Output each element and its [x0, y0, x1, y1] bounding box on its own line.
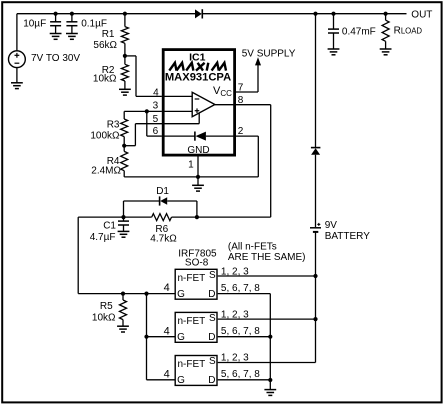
label 4.7uF [90, 232, 116, 243]
svg-text:n-FET: n-FET [178, 316, 206, 327]
svg-text:4.7kΩ: 4.7kΩ [150, 234, 177, 245]
label 5V SUPPLY [242, 48, 296, 59]
label 56k [93, 40, 117, 51]
node gate rail mid [144, 335, 148, 339]
label R1 [102, 29, 115, 40]
svg-text:6: 6 [153, 126, 159, 137]
logo MAXIM [169, 63, 226, 71]
svg-text:R1: R1 [102, 29, 115, 40]
comparator triangle (inside IC1) [192, 92, 215, 116]
label VCC [213, 85, 232, 98]
pin 4 label (Q3) [164, 368, 170, 380]
label pins 1,2,3 (Q1) [221, 266, 249, 277]
svg-text:4.7µF: 4.7µF [90, 232, 116, 243]
wire: gate 2 branch [147, 336, 175, 338]
diode (internal, IC1) [162, 132, 236, 141]
capacitor 10uF [50, 14, 61, 34]
svg-text:(All n-FETs: (All n-FETs [228, 241, 277, 252]
battery B1 9V [310, 223, 321, 363]
svg-text:10kΩ: 10kΩ [93, 74, 117, 85]
label GND (IC) [187, 145, 209, 156]
svg-text:S: S [209, 313, 216, 324]
svg-text:56kΩ: 56kΩ [93, 40, 117, 51]
label pins 5,6,7,8 (Q2) [221, 326, 260, 337]
node gate rail top [144, 292, 148, 296]
node: input junction dots [54, 12, 388, 16]
pin 7 label [238, 83, 244, 94]
wire: Q3 drain [218, 379, 271, 381]
capacitor C2 0.47mF [328, 14, 339, 49]
resistor R6 4.7k [152, 214, 172, 221]
label 0.47mF [342, 26, 376, 37]
wire: pin 1 stub [197, 157, 199, 177]
wire: top supply rail [17, 13, 407, 15]
node R3/R4 [122, 144, 126, 148]
wire: Q3 source [218, 362, 316, 364]
ground (0.47mF) [328, 49, 340, 55]
label 2.4M [91, 165, 121, 176]
svg-text:5, 6, 7, 8: 5, 6, 7, 8 [221, 283, 260, 294]
svg-text:100kΩ: 100kΩ [90, 131, 120, 142]
wire: pin 2 loop [236, 136, 258, 177]
svg-text:n-FET: n-FET [178, 359, 206, 370]
label 4.7k [150, 234, 177, 245]
resistor R4 2.4M [121, 146, 128, 177]
node Q2 source/rail [313, 317, 317, 321]
svg-text:D1: D1 [156, 186, 169, 197]
node pin3/pin6 link [145, 109, 149, 113]
svg-text:9V: 9V [325, 220, 338, 231]
transistor Q3 n-FET (IRF7805) [175, 356, 217, 387]
ground (10uF) [50, 34, 62, 40]
svg-text:5, 6, 7, 8: 5, 6, 7, 8 [221, 326, 260, 337]
label R2 [102, 65, 115, 76]
pin 2 label [238, 126, 244, 137]
ground (R5) [117, 326, 129, 332]
resistor R1 56k [121, 14, 128, 56]
label MAX931CPA [165, 72, 231, 84]
node R5 top [121, 292, 125, 296]
label IC1 [189, 52, 206, 64]
svg-text:R3: R3 [107, 119, 120, 130]
ground (C1) [118, 231, 130, 237]
node R1/R2 [123, 54, 127, 58]
svg-text:4: 4 [164, 282, 170, 294]
svg-text:0.47mF: 0.47mF [342, 26, 376, 37]
resistor R2 10k [121, 56, 128, 89]
wire: Q1 drain [218, 294, 271, 380]
svg-text:4: 4 [164, 368, 170, 380]
transistor Q2 n-FET (IRF7805) [175, 312, 217, 343]
label OUT [411, 10, 432, 21]
svg-text:GND: GND [187, 145, 209, 156]
svg-text:D: D [208, 332, 215, 343]
pin 4 label (Q1) [164, 282, 170, 294]
svg-text:S: S [209, 270, 216, 281]
ground (source) [11, 83, 23, 89]
node D1/C1 left [121, 215, 125, 219]
label IRF7805 [178, 249, 217, 260]
label pins 5,6,7,8 (Q3) [221, 369, 260, 380]
svg-text:OUT: OUT [411, 10, 432, 21]
capacitor C1 4.7uF [118, 217, 129, 231]
wire: left loop to gates [78, 217, 174, 294]
label 10uF [23, 19, 46, 30]
wire: pin4 to inverting input [162, 95, 192, 97]
wire: gnd stub [197, 177, 199, 185]
svg-text:C1: C1 [103, 221, 116, 232]
node D1 right [195, 215, 199, 219]
svg-text:D: D [208, 375, 215, 386]
transistor Q1 n-FET (IRF7805) [175, 269, 217, 300]
node Q2 drain [268, 335, 272, 339]
svg-text:5, 6, 7, 8: 5, 6, 7, 8 [221, 369, 260, 380]
svg-text:0.1µF: 0.1µF [81, 19, 107, 30]
diode D1 [124, 196, 197, 217]
ground (drain rail) [264, 390, 276, 396]
ground (RLOAD) [380, 49, 392, 55]
resistor R3 100k [121, 111, 128, 145]
svg-text:2: 2 [238, 126, 244, 137]
label R4 [107, 156, 120, 167]
arrow 5V supply [255, 57, 261, 65]
label 10k (R2) [93, 74, 117, 85]
label pins 1,2,3 (Q3) [221, 353, 249, 364]
wire: pin 8 output net [236, 105, 271, 217]
diode D2 (series input diode) [195, 9, 202, 18]
wire: comparator output to pin 8 [215, 104, 236, 106]
label C1 [103, 221, 116, 232]
pin 3 label [153, 101, 159, 112]
label RLOAD [394, 26, 423, 37]
wire: battery rail top [315, 14, 317, 148]
diode D3 (battery isolation) [311, 148, 321, 227]
wire: pin3 to pin6 [147, 111, 162, 136]
wire: Q2 source [218, 318, 316, 320]
wire: pin3 to noninverting input [162, 110, 192, 112]
wire: pin 7 to 5V supply [236, 64, 258, 92]
wire: divider to pin 4 [125, 56, 162, 97]
svg-text:G: G [177, 289, 185, 300]
label D1 [156, 186, 169, 197]
label SO-8 [185, 257, 209, 268]
svg-text:MAX931CPA: MAX931CPA [165, 72, 231, 84]
svg-text:1: 1 [188, 160, 194, 171]
svg-text:10kΩ: 10kΩ [92, 312, 116, 323]
pin 5 label [153, 114, 159, 125]
label 0.1uF [81, 19, 107, 30]
label R6 [155, 224, 168, 235]
wire: ground net (R4/pin1/pin2) [124, 176, 258, 178]
ground (R2) [119, 89, 131, 95]
label 10k (R5) [92, 312, 116, 323]
ground (pin 1) [192, 185, 204, 191]
node Q1 source/rail [313, 274, 317, 278]
svg-text:n-FET: n-FET [178, 273, 206, 284]
svg-text:G: G [177, 375, 185, 386]
svg-text:4: 4 [164, 325, 170, 337]
svg-text:G: G [177, 332, 185, 343]
wire: output node horizontal [78, 216, 271, 218]
label 7V TO 30V [31, 53, 80, 64]
svg-text:4: 4 [153, 87, 159, 98]
label pins 1,2,3 (Q2) [221, 310, 249, 321]
wire: Q1 source [218, 275, 316, 277]
pin 1 label [188, 160, 194, 171]
node Q3 drain [268, 378, 272, 382]
capacitor 0.1uF [66, 14, 77, 34]
svg-text:SO-8: SO-8 [185, 257, 209, 268]
svg-text:10µF: 10µF [23, 19, 46, 30]
label 9V [325, 220, 338, 231]
label 100k [90, 131, 120, 142]
wire: gate rail [147, 294, 175, 380]
svg-text:RLOAD: RLOAD [394, 26, 423, 37]
ground (0.1uF) [66, 34, 78, 40]
svg-text:ARE THE SAME): ARE THE SAME) [228, 252, 306, 263]
svg-text:R5: R5 [100, 301, 113, 312]
svg-text:D: D [208, 289, 215, 300]
label pins 5,6,7,8 (Q1) [221, 283, 260, 294]
label R5 [100, 301, 113, 312]
wire: pin 5 jog [124, 113, 199, 146]
label BATTERY [325, 231, 371, 242]
pin 8 label [238, 95, 244, 106]
node pin1 ground [196, 175, 200, 179]
svg-text:7V TO 30V: 7V TO 30V [31, 53, 80, 64]
resistor RLOAD [382, 14, 389, 49]
svg-text:S: S [209, 356, 216, 367]
wire: pin 3 net [124, 110, 162, 112]
svg-text:3: 3 [153, 101, 159, 112]
pin 6 label [153, 126, 159, 137]
pin 4 label [153, 87, 159, 98]
svg-text:5V SUPPLY: 5V SUPPLY [242, 48, 296, 59]
label R3 [107, 119, 120, 130]
op-amp U1 IC1 MAX931CPA box [163, 50, 234, 156]
svg-text:BATTERY: BATTERY [325, 231, 371, 242]
voltage source 7V TO 30V [9, 14, 26, 83]
pin 4 label (Q2) [164, 325, 170, 337]
wire: Q2 drain [218, 336, 271, 338]
svg-text:2.4MΩ: 2.4MΩ [91, 165, 121, 176]
wire: drain gnd stub [269, 380, 271, 389]
note all n-FETs same [228, 241, 306, 263]
resistor R5 10k [120, 294, 127, 326]
